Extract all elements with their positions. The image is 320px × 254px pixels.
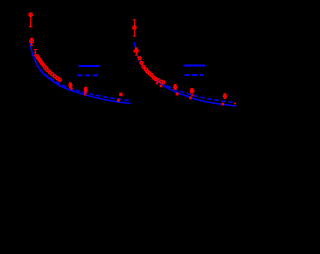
left panel legend dashed line xyxy=(78,74,100,76)
left panel small square marker xyxy=(70,87,72,89)
right panel small square marker xyxy=(191,94,193,96)
left panel data point with error bar xyxy=(84,87,87,92)
right panel small square marker xyxy=(133,50,135,52)
left panel data point 3 (small, error bar) xyxy=(34,50,37,55)
right panel data point 13 xyxy=(160,80,163,83)
right panel data point with error bar xyxy=(174,85,177,90)
right panel legend dashed line xyxy=(185,74,204,76)
right panel data point 7 xyxy=(146,70,149,73)
left panel small square marker xyxy=(119,93,122,96)
right panel legend solid line xyxy=(184,65,205,67)
left panel data point 6 xyxy=(38,58,41,61)
left panel data point with error bar xyxy=(69,83,72,88)
left panel data point 5 xyxy=(37,57,40,60)
left panel data point 2 with error bar xyxy=(30,38,33,45)
right panel small square marker xyxy=(189,97,192,100)
right panel data point 4 xyxy=(140,61,143,64)
right panel model curve: solid blue xyxy=(134,42,236,106)
left panel data point 16 xyxy=(56,77,59,80)
left panel data point 1 (top, long error bar) xyxy=(29,13,33,27)
right panel data point with error bar xyxy=(190,89,193,94)
right panel data point 1 (top, long error bar) xyxy=(133,20,136,36)
right panel data point 8 xyxy=(148,72,151,75)
left panel data point 14 xyxy=(51,73,54,76)
left panel data point 12 xyxy=(47,69,50,72)
right panel data point 12 xyxy=(157,79,160,82)
right panel small square marker xyxy=(176,93,179,96)
right panel data point 5 xyxy=(142,66,145,69)
right panel small square marker xyxy=(222,103,225,106)
left panel data point 17 xyxy=(58,78,61,81)
left panel small square marker xyxy=(84,93,86,95)
right panel data point 3 xyxy=(138,57,141,60)
left panel data point 9 xyxy=(42,64,45,67)
right panel data point 9 xyxy=(150,74,153,77)
right panel data point 11 xyxy=(154,78,157,81)
right panel data point 14 xyxy=(162,81,165,84)
right panel data point 10 xyxy=(152,76,155,79)
left panel data point 7 xyxy=(39,60,42,63)
right panel data point 2 with error bar xyxy=(135,48,138,55)
right panel small square marker xyxy=(160,85,163,88)
left panel data point 8 xyxy=(41,62,44,65)
left panel data point 4 xyxy=(36,55,39,58)
right panel model curve: dashed blue xyxy=(134,42,234,102)
left panel model curve: dashed blue xyxy=(30,42,130,101)
left panel data point 15 xyxy=(53,75,56,78)
left panel model curve: solid blue xyxy=(30,42,131,104)
right panel small square marker xyxy=(156,82,158,84)
left panel data point 10 xyxy=(43,65,46,68)
right panel data point 6 xyxy=(145,68,148,71)
left panel small square marker xyxy=(117,99,120,102)
left panel legend solid line xyxy=(79,65,100,67)
right panel data point with error bar xyxy=(224,94,227,99)
left panel data point 13 xyxy=(49,71,52,74)
left panel data point 11 xyxy=(45,67,48,70)
right panel small square marker xyxy=(234,103,236,105)
right panel small square marker xyxy=(193,90,195,92)
